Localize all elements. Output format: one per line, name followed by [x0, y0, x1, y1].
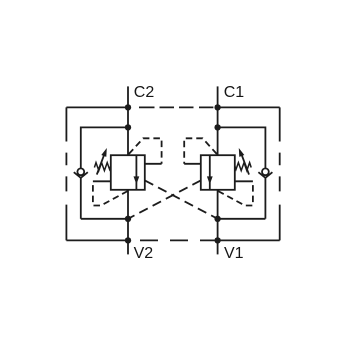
- junction dot C2 border: [125, 104, 131, 110]
- check valve CV1 seat: [258, 172, 272, 178]
- svg-text:C1: C1: [224, 84, 245, 101]
- port C2 stub wire: [127, 86, 129, 107]
- wire right valve to V1 line: [217, 190, 219, 241]
- left valve pilot tap solid stub: [145, 163, 162, 165]
- port V2 stub wire: [127, 240, 129, 254]
- right valve drain loop dashed: [218, 181, 253, 205]
- counterbalance valve left flow arrow: [135, 155, 137, 190]
- right valve drain solid stub: [235, 180, 253, 182]
- counterbalance valve right flow arrow: [209, 155, 211, 190]
- right spring adjustment arrow: [241, 154, 249, 175]
- enclosure bottom border left solid segment: [66, 239, 128, 241]
- junction dot left check top: [125, 124, 131, 130]
- left spring adjustment arrow: [97, 154, 105, 175]
- junction dot V2 border: [125, 237, 131, 243]
- enclosure right border dashed: [279, 107, 281, 240]
- pilot cross line right valve to V2: [128, 180, 201, 218]
- right valve pilot tap solid stub: [184, 163, 201, 165]
- svg-text:C2: C2: [134, 84, 155, 101]
- left valve drain solid stub: [93, 180, 111, 182]
- right valve pilot loop dashed: [184, 138, 217, 164]
- wire right check bypass bottom: [218, 178, 266, 219]
- enclosure top border right solid segment: [218, 106, 280, 108]
- junction dot right check bottom: [214, 216, 220, 222]
- check valve CV1 ball: [262, 168, 269, 175]
- enclosure top border middle dashed segment: [139, 106, 213, 108]
- enclosure top border left solid segment: [66, 106, 128, 108]
- wire left valve to V2 line: [127, 190, 129, 241]
- left valve pilot loop dashed: [129, 138, 162, 164]
- check valve CV2 seat: [74, 172, 88, 178]
- enclosure bottom border middle dashed segment: [140, 239, 215, 241]
- svg-text:V2: V2: [134, 245, 154, 262]
- junction dot right check top: [214, 124, 220, 130]
- enclosure bottom border right solid segment: [218, 239, 280, 241]
- port C1 stub wire: [217, 86, 219, 107]
- junction dot left check bottom: [125, 216, 131, 222]
- counterbalance valve left envelope: [111, 155, 145, 190]
- junction dot C1 border: [214, 104, 220, 110]
- pilot cross line left valve to V1: [145, 180, 218, 218]
- port V1 stub wire: [217, 240, 219, 254]
- wire left check bypass bottom: [81, 178, 128, 219]
- junction dot V1 border: [214, 237, 220, 243]
- counterbalance valve right envelope: [201, 155, 235, 190]
- svg-text:V1: V1: [224, 245, 244, 262]
- check valve CV2 ball: [77, 168, 84, 175]
- wire C1 line to right valve: [217, 107, 219, 155]
- wire C2 line to left valve: [127, 107, 129, 155]
- wire right check bypass top: [218, 127, 266, 168]
- left valve adjustable spring: [94, 163, 110, 171]
- left valve drain loop dashed: [93, 181, 128, 205]
- right valve adjustable spring: [235, 163, 251, 171]
- enclosure left border dashed: [65, 107, 67, 240]
- wire left check bypass top: [81, 127, 128, 168]
